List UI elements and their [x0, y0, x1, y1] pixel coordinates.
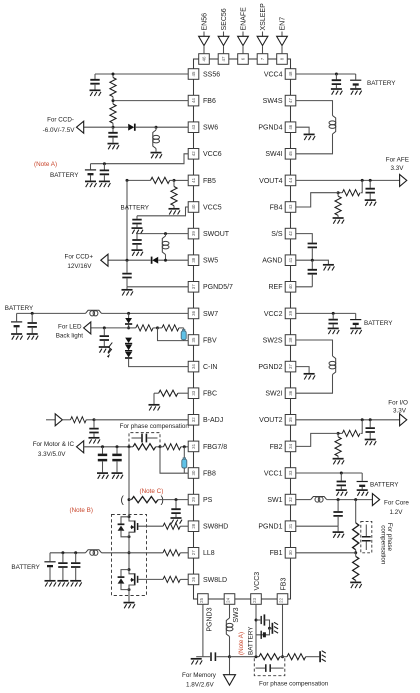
svg-text:35: 35 [191, 337, 196, 342]
wire FBV [158, 328, 189, 341]
svg-text:PGND3: PGND3 [206, 607, 213, 631]
label BATTERY [50, 172, 79, 179]
body diode D_Q1 [118, 517, 129, 537]
svg-text:XSLEEP: XSLEEP [260, 3, 267, 31]
vertical wire motor to PS and FETs [128, 447, 131, 517]
wire SW7 rail [102, 312, 189, 315]
battery symbol VCC6 [85, 164, 96, 181]
ground [97, 473, 109, 479]
svg-text:48: 48 [288, 71, 293, 76]
wire PGND2 [296, 367, 309, 373]
svg-text:FBV: FBV [203, 337, 217, 344]
wire B-ADJ [94, 419, 188, 421]
svg-text:For Core: For Core [384, 500, 409, 507]
capacitor S/S [308, 244, 317, 261]
svg-text:33: 33 [191, 390, 196, 395]
wire PGND5/7 [127, 286, 188, 288]
wire FB8 [160, 447, 188, 473]
svg-text:VCC6: VCC6 [203, 151, 222, 158]
ground [365, 200, 377, 206]
resistor R_FB3_1 [259, 654, 283, 660]
ground [57, 581, 69, 587]
svg-text:FB2: FB2 [270, 444, 283, 451]
capacitor VCC4 [332, 74, 341, 88]
feedback sense wire to CCD+ output [126, 180, 128, 260]
wire SW6 [136, 126, 188, 129]
resistor R_FB5_h [126, 177, 175, 183]
svg-text:42: 42 [288, 231, 293, 236]
ground [304, 374, 316, 380]
wire SW2I [296, 375, 333, 394]
svg-text:43: 43 [191, 124, 196, 129]
resistor R_FBV2 [158, 325, 184, 331]
resistor R_BADJ [62, 417, 95, 423]
svg-text:SW8LD: SW8LD [203, 577, 227, 584]
wire motor rail [84, 445, 133, 448]
body diode D_Q2 [118, 570, 129, 590]
diode D_SW6 [112, 124, 135, 131]
svg-text:44: 44 [191, 98, 196, 103]
LED light arrow [107, 343, 112, 358]
svg-text:43: 43 [288, 204, 293, 209]
ground [323, 265, 335, 271]
ground [336, 490, 348, 496]
LED D4 [125, 352, 132, 358]
svg-text:FBC: FBC [203, 391, 217, 398]
capacitor memory output [203, 652, 230, 661]
svg-text:38: 38 [288, 337, 293, 342]
ground [112, 473, 124, 479]
svg-text:C-IN: C-IN [203, 364, 217, 371]
svg-text:BATTERY: BATTERY [247, 626, 254, 655]
wire to memory terminal [229, 657, 231, 675]
wire SWOUT [137, 232, 188, 235]
wire LED tap [91, 326, 129, 329]
svg-text:VCC4: VCC4 [264, 71, 283, 78]
ground [328, 328, 340, 334]
svg-text:45: 45 [191, 71, 196, 76]
ground [90, 90, 102, 96]
svg-text:SW4S: SW4S [263, 98, 283, 105]
ground [132, 228, 144, 234]
svg-text:For AFE: For AFE [386, 156, 409, 163]
svg-text:S/S: S/S [271, 231, 283, 238]
wire LL8 node [128, 537, 131, 570]
wire FB6 [112, 99, 189, 102]
capacitor LED tap [100, 328, 109, 346]
ground [27, 334, 39, 340]
svg-text:VOUT4: VOUT4 [259, 178, 282, 185]
output terminal For Core [372, 494, 379, 506]
svg-text:FB6: FB6 [203, 98, 216, 105]
output terminal For Memory [224, 675, 236, 686]
capacitor phase comp memory [256, 664, 284, 672]
svg-text:39: 39 [288, 310, 293, 315]
label BATTERY [121, 204, 150, 211]
ground [365, 440, 377, 446]
capacitor PS [171, 500, 180, 518]
svg-text:28: 28 [191, 523, 196, 528]
capacitor SW7 battery [28, 313, 37, 333]
wire LED bottom to C-IN [129, 359, 189, 367]
svg-text:For CCD-: For CCD- [47, 117, 74, 124]
svg-text:40: 40 [191, 204, 196, 209]
dashed box phase comp memory [254, 658, 284, 676]
ground [151, 153, 163, 159]
capacitor VOUT4 [366, 180, 375, 199]
battery symbol VCC4 [350, 74, 361, 88]
wire FB3 down [281, 604, 284, 658]
note label (Note A) [34, 161, 57, 168]
wire VCC1 [296, 472, 362, 475]
capacitor battery 1 [58, 553, 67, 580]
svg-text:SW4I: SW4I [265, 151, 282, 158]
blue chip component FB8 [182, 447, 187, 473]
wire S/S [296, 234, 313, 243]
wire PGND4 [296, 127, 309, 133]
wire SW4S [296, 101, 333, 116]
resistor R_FBG2 [160, 444, 188, 450]
capacitor CCD+ output [122, 260, 131, 287]
capacitor AGND-REF [308, 260, 317, 287]
svg-text:3.3V: 3.3V [391, 165, 405, 172]
inductor L_SW5 [162, 234, 169, 261]
inductor L4 [329, 116, 336, 135]
svg-text:PGND2: PGND2 [258, 364, 282, 371]
label For phase compensation [120, 423, 190, 430]
left pin boxes and labels [188, 69, 233, 585]
resistor R_FB1_bottom [353, 553, 359, 582]
svg-text:41: 41 [288, 257, 293, 262]
svg-text:PGND5/7: PGND5/7 [203, 284, 233, 291]
svg-text:VCC2: VCC2 [264, 311, 283, 318]
label BATTERY [370, 482, 399, 489]
wire VCC6 to battery [91, 154, 189, 165]
wire core output [327, 498, 373, 501]
output terminal For I/O [400, 414, 407, 426]
label BATTERY [5, 305, 34, 312]
inductor L_LL8 [86, 550, 130, 556]
svg-text:REF: REF [269, 284, 283, 291]
top pin boxes, input buffer triangles and rotated labels [199, 3, 288, 64]
battery symbol LL8 [44, 553, 55, 580]
note label (Note C) [140, 488, 164, 495]
svg-text:BATTERY: BATTERY [121, 204, 150, 211]
note label (Note B) [70, 507, 93, 514]
svg-text:BATTERY: BATTERY [5, 305, 34, 312]
resistor R_FB5_v [171, 180, 177, 208]
ground [171, 518, 183, 524]
wire SW2S [296, 340, 333, 356]
wire battery rail [50, 551, 86, 554]
wire FB2 [296, 433, 338, 446]
dashed box phase comp core [361, 522, 372, 553]
svg-text:For CCD+: For CCD+ [64, 253, 93, 260]
label For CCD+ [64, 253, 93, 270]
wire to CCD- output [84, 126, 113, 128]
ground [70, 581, 82, 587]
ground [99, 347, 111, 353]
svg-text:46: 46 [288, 124, 293, 129]
capacitor VCC2 [329, 313, 338, 327]
resistor R_FBV1 [129, 325, 159, 331]
resistor R_SW8HD [138, 523, 188, 529]
svg-text:FB8: FB8 [203, 470, 216, 477]
svg-text:PGND1: PGND1 [258, 524, 282, 531]
svg-text:(Note C): (Note C) [140, 488, 164, 495]
ground [122, 287, 134, 296]
capacitor motor 1 [98, 447, 107, 473]
svg-text:32: 32 [288, 497, 293, 502]
svg-text:FBG7/8: FBG7/8 [203, 444, 227, 451]
ground [108, 144, 120, 150]
resistor R_FBC [154, 390, 188, 396]
diode D_SW5 [108, 257, 158, 264]
svg-text:For Memory: For Memory [182, 672, 217, 679]
ground FBC [149, 393, 161, 410]
label For I/O 3.3V [388, 399, 408, 414]
ground [333, 218, 345, 224]
svg-text:12V/16V: 12V/16V [67, 263, 92, 270]
ground [350, 328, 362, 334]
svg-text:42: 42 [191, 151, 196, 156]
svg-text:37: 37 [288, 364, 293, 369]
wire PGND3 down [202, 604, 204, 656]
label For CCD- [43, 117, 76, 134]
resistor R_FB3_2 [283, 654, 320, 660]
ground [169, 209, 181, 215]
output terminal For CCD- [77, 121, 84, 133]
svg-text:45: 45 [288, 151, 293, 156]
svg-text:SW2S: SW2S [263, 337, 283, 344]
wire VCC2 [296, 312, 356, 315]
svg-text:41: 41 [191, 177, 196, 182]
svg-text:23: 23 [252, 597, 257, 602]
right pin boxes and labels [258, 69, 295, 558]
capacitor SWOUT [132, 234, 141, 250]
svg-text:35: 35 [288, 417, 293, 422]
ground [350, 582, 362, 588]
bottom pin boxes and rotated labels [198, 572, 288, 632]
svg-text:25: 25 [199, 597, 204, 602]
ground [357, 490, 369, 496]
LED D2 [125, 338, 132, 344]
label For Memory [182, 672, 217, 688]
svg-text:29: 29 [191, 497, 196, 502]
output terminal For CCD+ [101, 254, 108, 266]
svg-text:BATTERY: BATTERY [364, 320, 393, 327]
svg-text:For phase compensation: For phase compensation [120, 423, 190, 430]
capacitor motor 2 [112, 447, 121, 473]
transistor Q4 battery switch bottom [256, 628, 270, 639]
output terminal For AFE [400, 174, 407, 186]
wire FB4 [296, 193, 338, 207]
capacitor VCC5 [132, 216, 141, 228]
svg-text:40: 40 [288, 284, 293, 289]
svg-text:BATTERY: BATTERY [50, 172, 79, 179]
svg-text:34: 34 [191, 364, 196, 369]
output terminal For LED [84, 322, 91, 334]
svg-text:): ) [161, 495, 164, 506]
label For Core 1.2V [384, 500, 409, 517]
svg-text:32: 32 [191, 417, 196, 422]
capacitor phase comp core [362, 525, 371, 551]
wire VCC4 [296, 73, 356, 76]
capacitor VOUT2 [366, 420, 375, 439]
capacitor B-ADJ [89, 420, 98, 437]
svg-text:EN56: EN56 [201, 13, 208, 31]
capacitor battery 2 [71, 553, 80, 580]
svg-text:44: 44 [288, 177, 293, 182]
ground [11, 334, 23, 340]
svg-text:38: 38 [191, 257, 196, 262]
resistor R_FB4_bottom [335, 193, 341, 218]
svg-text:(: ( [121, 495, 125, 506]
resistor R_SW8LD [138, 576, 188, 582]
svg-text:BATTERY: BATTERY [370, 482, 399, 489]
svg-text:36: 36 [288, 390, 293, 395]
svg-text:SW3: SW3 [233, 607, 240, 622]
svg-text:1.8V/2.6V: 1.8V/2.6V [186, 682, 214, 689]
label For LED Back light [56, 324, 84, 340]
inductor L_SW6 [153, 127, 160, 152]
svg-text:B-ADJ: B-ADJ [203, 417, 223, 424]
svg-text:36: 36 [191, 310, 196, 315]
svg-text:33: 33 [288, 470, 293, 475]
svg-text:SW1: SW1 [267, 497, 282, 504]
resistor R_FBG1 [133, 444, 162, 450]
svg-text:SEC56: SEC56 [221, 8, 228, 30]
blue chip component FBV [181, 328, 186, 341]
dashed box Note B [112, 515, 147, 596]
capacitor phase comp FBG [132, 434, 158, 443]
wire PGND1 [296, 525, 338, 527]
ground below Q2 [124, 590, 136, 609]
wire FB1 [296, 552, 356, 554]
wire SW5 [158, 259, 188, 262]
svg-text:31: 31 [191, 443, 196, 448]
ground [89, 438, 101, 444]
wire VCC3 down [255, 604, 258, 656]
svg-text:PGND4: PGND4 [258, 125, 282, 132]
svg-text:27: 27 [191, 550, 196, 555]
ground PGND1 [333, 526, 345, 538]
svg-text:BATTERY: BATTERY [11, 564, 40, 571]
svg-text:(Note B): (Note B) [70, 507, 93, 514]
battery symbol VCC1 [357, 473, 368, 489]
transistor Q3 battery switch top [256, 614, 271, 629]
ground [333, 459, 345, 465]
svg-text:SS56: SS56 [203, 71, 220, 78]
capacitor at CCD- node [108, 127, 117, 143]
svg-text:For phase compensation: For phase compensation [259, 680, 329, 687]
resistor R_FB2_top [337, 420, 363, 437]
svg-text:VOUT2: VOUT2 [259, 417, 282, 424]
label For phase compensation bottom [259, 680, 329, 687]
inductor L1 [311, 497, 327, 503]
ground rotated rail end [320, 651, 326, 663]
svg-text:LL8: LL8 [203, 550, 215, 557]
inductor L_SW3 [226, 604, 233, 658]
IC body outline [194, 59, 291, 599]
capacitor VCC6 [100, 164, 109, 181]
ground [304, 134, 316, 140]
input triangle B-ADJ [55, 414, 62, 426]
svg-text:(Note A): (Note A) [34, 161, 57, 168]
svg-text:30: 30 [191, 470, 196, 475]
ground [132, 250, 144, 256]
label For phase compensation rotated [380, 523, 393, 565]
ground [331, 89, 343, 95]
svg-text:FB3: FB3 [281, 578, 288, 591]
resistor R_FB6_lower [110, 102, 116, 126]
battery symbol SW7 [11, 313, 22, 333]
svg-text:26: 26 [191, 576, 196, 581]
svg-text:SW5: SW5 [203, 258, 218, 265]
transistor Q2 (low side) [128, 568, 138, 591]
inductor L2 [329, 356, 336, 375]
svg-text:FB5: FB5 [203, 178, 216, 185]
resistor R_FB2_bottom [335, 433, 341, 458]
battery symbol VCC2 [350, 313, 361, 327]
svg-text:For Motor & IC: For Motor & IC [33, 441, 75, 448]
ground [45, 581, 57, 587]
resistor R_FB6_upper [110, 76, 116, 100]
svg-text:AGND: AGND [262, 258, 282, 265]
svg-text:37: 37 [191, 284, 196, 289]
svg-text:For LED: For LED [58, 324, 82, 331]
svg-text:30: 30 [288, 550, 293, 555]
resistor R_PS optional with parentheses [121, 495, 189, 506]
svg-text:PS: PS [203, 497, 213, 504]
svg-text:compensation: compensation [380, 525, 387, 565]
resistor R_FB4_top [337, 180, 363, 195]
ground [350, 89, 362, 95]
label BATTERY [367, 80, 396, 87]
output terminal For Motor [77, 441, 84, 453]
svg-text:39: 39 [191, 231, 196, 236]
inductor L_SW7 [17, 310, 102, 316]
svg-text:ENAFE: ENAFE [240, 7, 247, 31]
input lead B-ADJ [46, 419, 55, 421]
svg-text:VCC5: VCC5 [203, 204, 222, 211]
label For AFE 3.3V [386, 156, 409, 172]
wire SS56 to filter node [95, 73, 188, 76]
svg-text:31: 31 [288, 523, 293, 528]
resistor R_FB1_top [353, 500, 359, 555]
svg-text:SW7: SW7 [203, 311, 218, 318]
svg-text:SWOUT: SWOUT [203, 231, 230, 238]
svg-text:47: 47 [288, 98, 293, 103]
ground [99, 181, 111, 187]
capacitor core output [333, 500, 342, 527]
svg-text:SW6: SW6 [203, 125, 218, 132]
LED D1 [125, 313, 132, 329]
dashed box phase compensation [129, 433, 160, 447]
resistor R_LL8 [129, 550, 188, 556]
svg-text:BATTERY: BATTERY [367, 80, 396, 87]
svg-text:-6.0V/-7.5V: -6.0V/-7.5V [43, 127, 76, 134]
svg-text:(Note A): (Note A) [238, 632, 245, 655]
svg-text:EN7: EN7 [279, 17, 286, 31]
wire REF [296, 286, 313, 288]
capacitor C_SS56 [90, 74, 99, 90]
label For Motor & IC [33, 441, 75, 458]
label BATTERY [11, 564, 40, 571]
note label (Note A) rotated [238, 632, 245, 655]
svg-text:46: 46 [201, 56, 206, 61]
wire VOUT4 [296, 179, 400, 182]
